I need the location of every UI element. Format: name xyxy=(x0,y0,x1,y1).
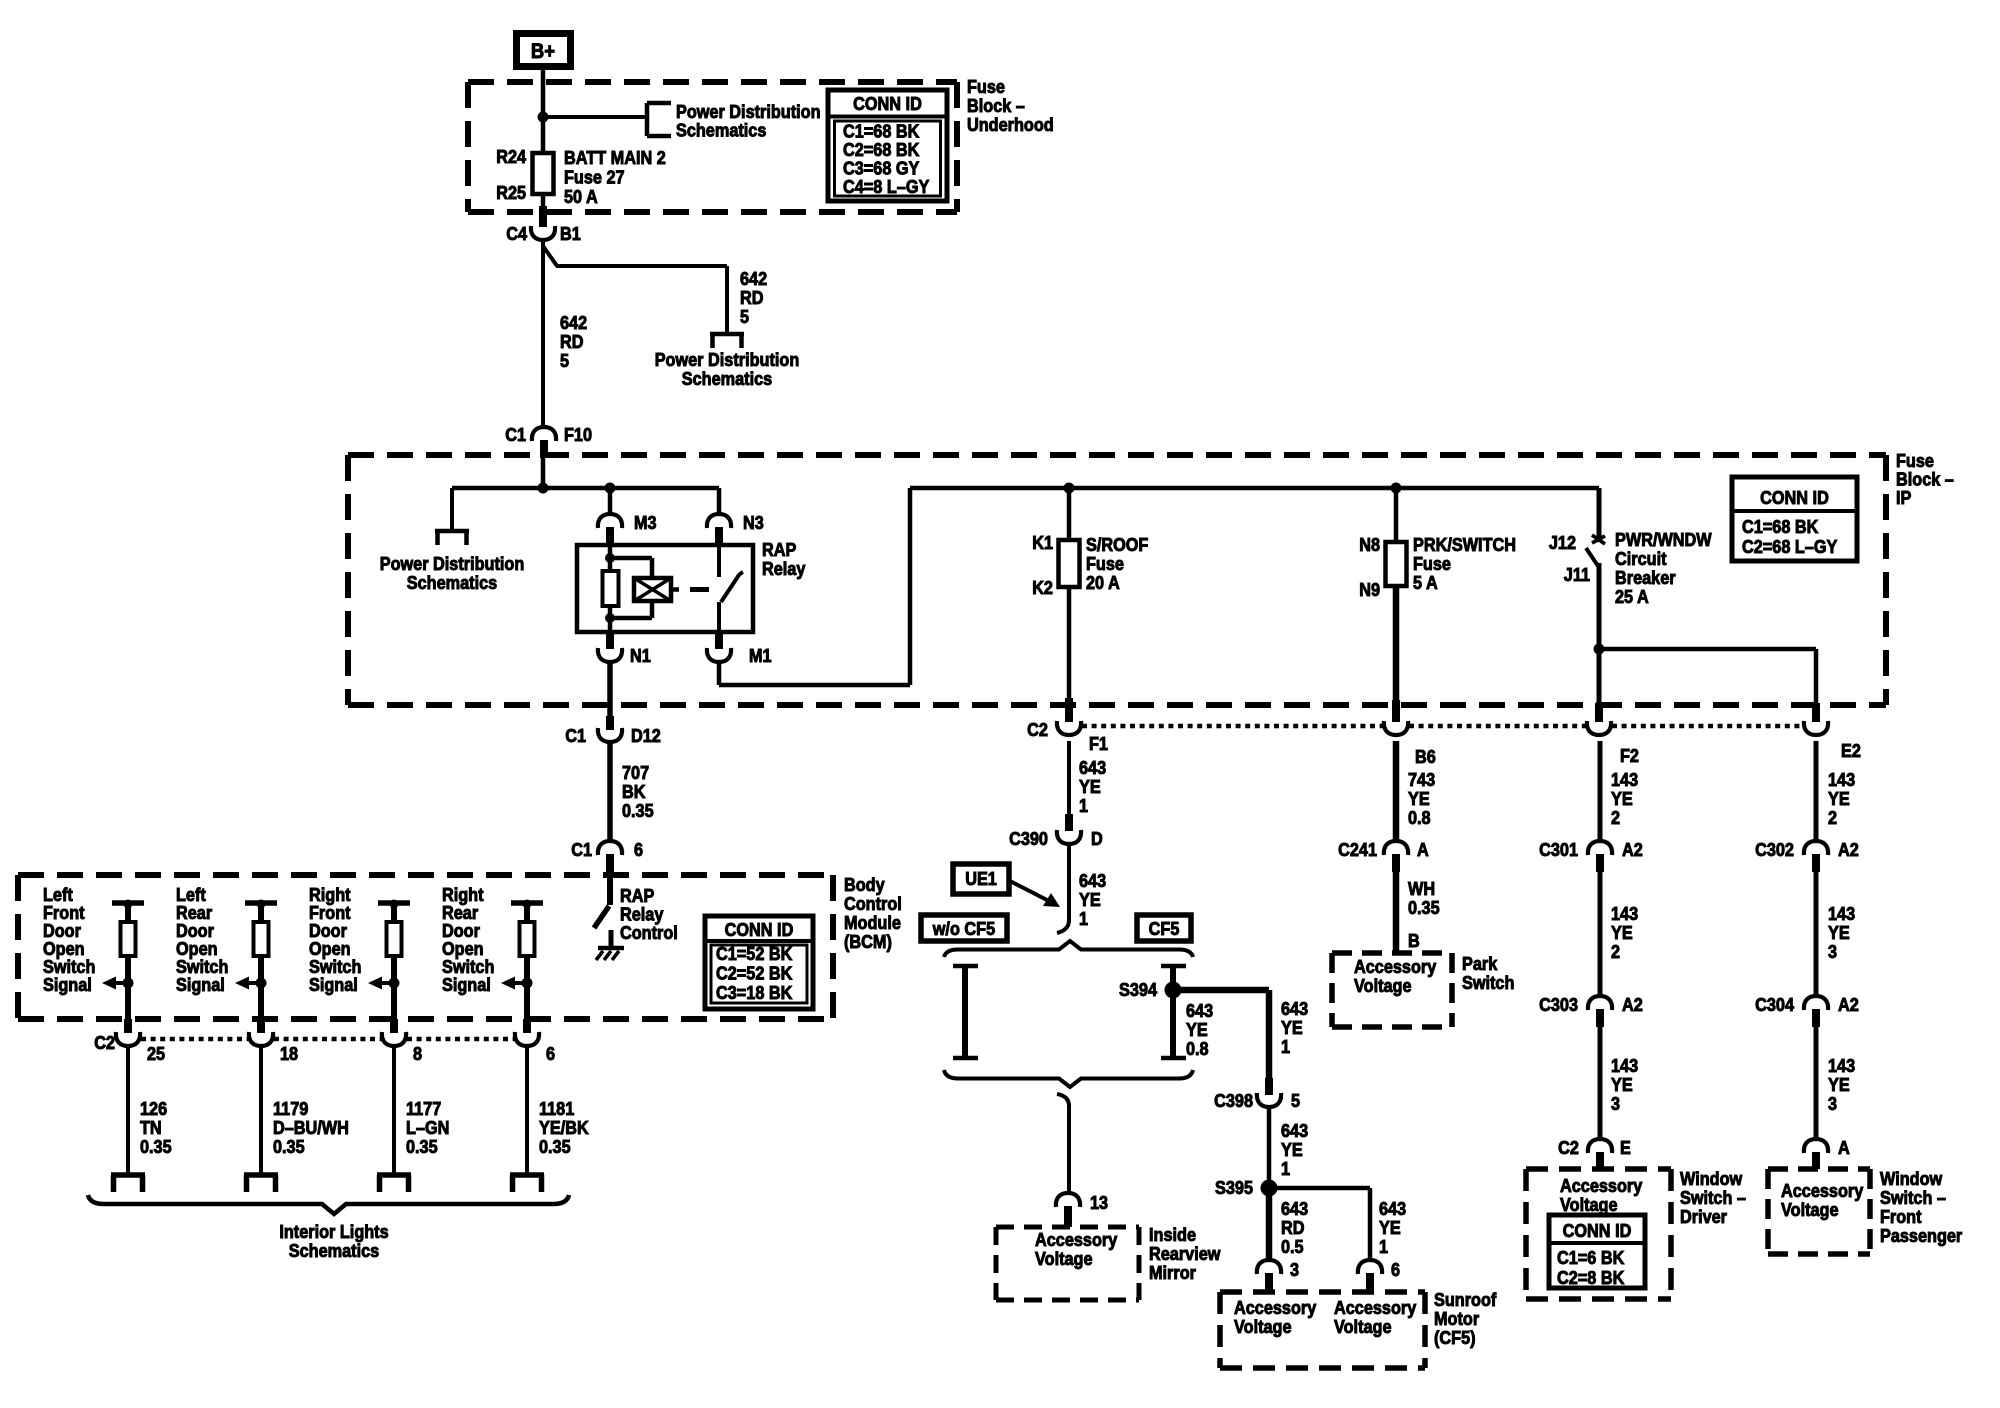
wire M1 return to right bus xyxy=(719,488,910,685)
svg-text:Passenger: Passenger xyxy=(1880,1225,1962,1246)
label right rear door open switch signal xyxy=(442,884,494,995)
svg-text:M1: M1 xyxy=(749,645,772,666)
svg-text:13: 13 xyxy=(1090,1192,1108,1213)
resistor left rear door switch xyxy=(254,922,269,956)
connector C2 pin 6 xyxy=(515,1019,555,1064)
label Inside Rearview Mirror xyxy=(1149,1224,1221,1283)
switch right front door open signal branch xyxy=(378,900,410,923)
wire 1177 L&#8211;GN xyxy=(394,1046,449,1175)
svg-text:A: A xyxy=(1417,839,1429,860)
connector C2 pin 25 xyxy=(116,1019,165,1064)
svg-text:C390: C390 xyxy=(1009,828,1048,849)
node left rear signal junction xyxy=(235,977,267,990)
wire 643 YE 1 from C2F1 to C390 xyxy=(1069,741,1106,831)
wire left front door switch to connector xyxy=(125,956,131,1021)
wire branch 642 RD to power distribution xyxy=(543,246,727,334)
label Power Distribution Schematics 3 xyxy=(380,553,525,593)
node bus dot at PRK/SWITCH fuse xyxy=(1391,483,1402,494)
svg-text:CONN ID: CONN ID xyxy=(725,919,794,940)
svg-text:25: 25 xyxy=(147,1043,165,1064)
CONN ID table BCM xyxy=(705,916,813,1009)
svg-text:UE1: UE1 xyxy=(965,868,997,889)
wire bus corner to circuit breaker J12 xyxy=(1597,488,1602,542)
svg-text:A2: A2 xyxy=(1622,994,1643,1015)
circuit breaker PWR/WNDW 25A J12 J11 xyxy=(1549,529,1712,649)
svg-text:3: 3 xyxy=(1611,1093,1620,1114)
node splice S395 xyxy=(1215,1177,1277,1198)
svg-text:Signal: Signal xyxy=(442,974,491,995)
node CF5 option box xyxy=(1137,915,1191,941)
node w/o CF5 option box xyxy=(921,915,1007,941)
dotted harness line below IP xyxy=(1082,724,1803,729)
off-page bracket power distribution 2 xyxy=(710,334,744,348)
svg-text:0.35: 0.35 xyxy=(1408,897,1440,918)
svg-text:Schematics: Schematics xyxy=(289,1240,379,1261)
off-page bracket power distribution 3 xyxy=(435,531,469,545)
svg-text:K2: K2 xyxy=(1032,577,1053,598)
svg-text:Voltage: Voltage xyxy=(1334,1316,1392,1337)
CONN ID table window switch driver xyxy=(1549,1215,1645,1288)
connector N1 xyxy=(598,632,651,666)
svg-text:R25: R25 xyxy=(496,182,526,203)
svg-text:D: D xyxy=(1091,828,1103,849)
svg-text:B1: B1 xyxy=(560,223,581,244)
connector C2 E driver switch xyxy=(1558,1137,1631,1169)
fuse S/ROOF 20A K1 K2 xyxy=(1032,532,1148,598)
CONN ID table fuse block underhood xyxy=(828,90,947,201)
svg-text:w/o CF5: w/o CF5 xyxy=(932,918,996,939)
resistor left front door switch xyxy=(121,922,136,956)
svg-text:1: 1 xyxy=(1079,908,1088,929)
relay RAP box xyxy=(577,539,806,632)
connector C1 D12 xyxy=(565,662,661,746)
wire S394 to C398 xyxy=(1173,990,1308,1095)
brace interior lights group xyxy=(88,1195,569,1214)
svg-text:Signal: Signal xyxy=(176,974,225,995)
svg-text:1: 1 xyxy=(1079,795,1088,816)
connector M3 xyxy=(598,512,657,547)
svg-text:1: 1 xyxy=(1281,1036,1290,1057)
wire 643 YE 1 below C398 xyxy=(1269,1107,1308,1188)
svg-text:A2: A2 xyxy=(1838,994,1859,1015)
label right front door open switch signal xyxy=(309,884,361,995)
wire 143 YE 3 to passenger switch xyxy=(1816,1027,1855,1140)
relay coil winding box xyxy=(634,578,679,601)
svg-text:E: E xyxy=(1620,1137,1631,1158)
off-page bracket power distribution 1 xyxy=(647,103,671,136)
arrow UE1 to wire xyxy=(1010,881,1060,907)
svg-text:B+: B+ xyxy=(531,40,555,63)
svg-text:C1: C1 xyxy=(565,725,586,746)
wire CF5 sunroof path xyxy=(1161,966,1186,1058)
label 642 RD 5 right branch xyxy=(740,268,767,327)
brace option split bottom xyxy=(944,1070,1193,1087)
svg-text:0.35: 0.35 xyxy=(140,1136,172,1157)
fuse block underhood dashed box xyxy=(468,82,957,212)
switch right rear door open signal branch xyxy=(511,900,543,923)
connector C2 pin 18 xyxy=(249,1019,298,1064)
node bus dot at S/ROOF fuse xyxy=(1064,483,1075,494)
wire bus left section in IP xyxy=(452,458,719,488)
wire 143 YE 3 to driver switch xyxy=(1600,1027,1638,1140)
svg-text:Schematics: Schematics xyxy=(682,368,772,389)
switch left front door open signal branch xyxy=(112,900,144,923)
label Park Switch xyxy=(1462,953,1514,993)
wire S395 to sunroof pin 3 xyxy=(1269,1188,1308,1261)
svg-text:C2=8 BK: C2=8 BK xyxy=(1557,1267,1625,1288)
node right rear signal junction xyxy=(501,977,533,990)
svg-text:3: 3 xyxy=(1828,1093,1837,1114)
connector C2 F1 xyxy=(1027,719,1108,754)
svg-text:A: A xyxy=(1838,1137,1850,1158)
svg-text:C1=68 BK: C1=68 BK xyxy=(1742,516,1819,537)
svg-text:K1: K1 xyxy=(1032,532,1053,553)
svg-text:Schematics: Schematics xyxy=(407,572,497,593)
svg-text:3: 3 xyxy=(1828,941,1837,962)
svg-text:Mirror: Mirror xyxy=(1149,1262,1196,1283)
label Body Control Module BCM xyxy=(844,874,902,952)
svg-text:5: 5 xyxy=(740,306,749,327)
node left front signal junction xyxy=(102,977,134,990)
svg-text:C3=18 BK: C3=18 BK xyxy=(716,982,793,1003)
svg-text:C2: C2 xyxy=(1027,719,1048,740)
wire fuse R25 to connector C4 xyxy=(541,194,546,227)
wire 143 YE 2 to C303 xyxy=(1600,872,1638,998)
svg-text:N1: N1 xyxy=(630,645,651,666)
wire to relay pin N3 xyxy=(717,488,722,516)
window switch passenger box xyxy=(1768,1169,1870,1254)
svg-text:M3: M3 xyxy=(634,512,657,533)
connector B6 xyxy=(1384,721,1436,767)
svg-text:2: 2 xyxy=(1828,807,1837,828)
connector C303 A2 xyxy=(1539,994,1643,1027)
label Window Switch Driver xyxy=(1680,1168,1746,1227)
label Power Distribution Schematics 2 xyxy=(655,349,800,389)
svg-text:C304: C304 xyxy=(1755,994,1794,1015)
svg-text:5: 5 xyxy=(560,350,569,371)
svg-text:E2: E2 xyxy=(1841,740,1861,761)
svg-text:5: 5 xyxy=(1291,1090,1300,1111)
connector N3 xyxy=(707,512,764,547)
wire drop to power distribution in IP xyxy=(450,488,454,531)
svg-text:BATT MAIN 2: BATT MAIN 2 xyxy=(564,147,666,168)
connector F2 xyxy=(1587,721,1639,766)
svg-text:C241: C241 xyxy=(1338,839,1377,860)
label left front door open switch signal xyxy=(43,884,95,995)
terminal end right rear interior lights xyxy=(510,1175,544,1192)
connector M1 xyxy=(707,632,772,666)
label 643 YE 0.8 xyxy=(1186,1000,1213,1059)
label Fuse Block Underhood xyxy=(967,76,1054,135)
label Power Distribution Schematics 1 xyxy=(676,101,821,141)
svg-text:C398: C398 xyxy=(1214,1090,1253,1111)
relay coil feed wire xyxy=(608,545,613,558)
svg-text:C1: C1 xyxy=(571,839,592,860)
label Sunroof Motor CF5 xyxy=(1434,1289,1497,1348)
svg-text:6: 6 xyxy=(1391,1259,1400,1280)
svg-text:B: B xyxy=(1408,930,1420,951)
svg-text:C2: C2 xyxy=(94,1032,115,1053)
svg-text:J11: J11 xyxy=(1564,564,1591,585)
svg-text:0.35: 0.35 xyxy=(273,1136,305,1157)
svg-text:Underhood: Underhood xyxy=(967,114,1054,135)
wire w/o CF5 jumper xyxy=(953,966,978,1058)
svg-text:IP: IP xyxy=(1896,487,1912,508)
node junction below circuit breaker xyxy=(1594,644,1605,655)
resistor relay coil shunt xyxy=(603,558,619,618)
svg-text:50 A: 50 A xyxy=(564,186,598,207)
svg-text:C1=52 BK: C1=52 BK xyxy=(716,943,793,964)
connector C1 pin 6 BCM xyxy=(571,839,643,877)
svg-text:Switch: Switch xyxy=(1462,972,1514,993)
svg-text:C4=8 L–GY: C4=8 L–GY xyxy=(843,176,930,197)
svg-text:Signal: Signal xyxy=(43,974,92,995)
wire to inside rearview mirror xyxy=(1067,1104,1071,1194)
svg-text:B6: B6 xyxy=(1415,746,1436,767)
wire 743 YE 0.8 to C241 xyxy=(1396,741,1435,843)
svg-text:J12: J12 xyxy=(1549,532,1576,553)
body control module BCM dashed box xyxy=(18,875,833,1019)
node relay bottom junction xyxy=(605,613,615,623)
svg-text:5 A: 5 A xyxy=(1413,572,1438,593)
wire left rear door switch to connector xyxy=(258,956,264,1021)
svg-text:R24: R24 xyxy=(496,146,526,167)
svg-text:C303: C303 xyxy=(1539,994,1578,1015)
power symbol B+ xyxy=(517,34,571,67)
svg-text:C1=6 BK: C1=6 BK xyxy=(1557,1247,1625,1268)
fuse block IP dashed box xyxy=(348,455,1886,705)
svg-text:Voltage: Voltage xyxy=(1035,1248,1093,1269)
svg-text:F1: F1 xyxy=(1089,733,1108,754)
wire right front door switch to connector xyxy=(391,956,397,1021)
connector C301 A2 xyxy=(1539,839,1643,872)
wire B+ to fuse R24 xyxy=(541,70,546,153)
relay contact switch xyxy=(719,545,743,632)
connector C4 B1 xyxy=(506,223,581,244)
svg-text:N8: N8 xyxy=(1359,534,1380,555)
connector sunroof pin 3 xyxy=(1257,1259,1299,1292)
wire tap to power distribution schematics xyxy=(543,115,647,119)
svg-text:F2: F2 xyxy=(1620,745,1639,766)
svg-text:25 A: 25 A xyxy=(1615,586,1649,607)
svg-text:Voltage: Voltage xyxy=(1560,1194,1618,1215)
wire S/ROOF fuse to C2 F1 xyxy=(1067,587,1072,722)
brace option split top xyxy=(944,941,1193,957)
node bus dot at M3 drop xyxy=(605,483,616,494)
svg-text:CF5: CF5 xyxy=(1149,918,1180,939)
label left rear door open switch signal xyxy=(176,884,228,995)
svg-text:C1: C1 xyxy=(505,424,526,445)
terminal end left front interior lights xyxy=(111,1175,145,1192)
svg-text:CONN ID: CONN ID xyxy=(1563,1220,1632,1241)
svg-text:C2=52 BK: C2=52 BK xyxy=(716,963,793,984)
svg-text:1: 1 xyxy=(1281,1158,1290,1179)
svg-text:CONN ID: CONN ID xyxy=(853,93,922,114)
wire 143 YE 2 to C301 xyxy=(1600,741,1638,843)
svg-text:0.5: 0.5 xyxy=(1281,1236,1304,1257)
svg-text:6: 6 xyxy=(634,839,643,860)
resistor right rear door switch xyxy=(520,922,535,956)
svg-text:Schematics: Schematics xyxy=(676,120,766,141)
terminal end left rear interior lights xyxy=(244,1175,278,1192)
svg-text:0.35: 0.35 xyxy=(406,1136,438,1157)
connector sunroof pin 6 xyxy=(1358,1259,1400,1292)
window switch driver box xyxy=(1526,1169,1671,1299)
svg-text:(CF5): (CF5) xyxy=(1434,1327,1476,1348)
wire WH 0.35 to park switch xyxy=(1396,872,1440,953)
park switch accessory voltage box xyxy=(1332,953,1452,1027)
svg-text:Control: Control xyxy=(620,922,678,943)
svg-text:Voltage: Voltage xyxy=(1354,975,1412,996)
node right front signal junction xyxy=(368,977,400,990)
node bus dot at F10 drop xyxy=(538,483,549,494)
svg-text:CONN ID: CONN ID xyxy=(1760,487,1829,508)
label Fuse Block IP xyxy=(1896,450,1954,508)
ground BCM internal xyxy=(596,948,624,960)
connector C302 A2 xyxy=(1755,839,1859,872)
svg-text:D12: D12 xyxy=(631,725,661,746)
node relay top junction xyxy=(605,553,615,563)
svg-text:N3: N3 xyxy=(743,512,764,533)
resistor right front door switch xyxy=(387,922,402,956)
svg-text:Fuse 27: Fuse 27 xyxy=(564,167,625,188)
wire break option split bottom xyxy=(1057,1094,1069,1106)
wire relay coil branch xyxy=(610,558,652,578)
connector C2 pin 8 xyxy=(382,1019,422,1064)
svg-text:C4: C4 xyxy=(506,223,527,244)
sunroof motor box xyxy=(1220,1292,1425,1368)
svg-text:18: 18 xyxy=(280,1043,298,1064)
node splice S394 xyxy=(1119,979,1181,1000)
wire 143 YE 3 to C304 xyxy=(1816,872,1855,998)
wire S395 branch to sunroof pin 6 xyxy=(1269,1188,1406,1261)
wire branch to E2 xyxy=(1599,649,1816,722)
svg-text:2: 2 xyxy=(1611,807,1620,828)
svg-text:1: 1 xyxy=(1379,1236,1388,1257)
svg-text:0.8: 0.8 xyxy=(1186,1038,1209,1059)
svg-text:0.8: 0.8 xyxy=(1408,807,1431,828)
svg-text:C2: C2 xyxy=(1558,1137,1579,1158)
connector A passenger switch xyxy=(1804,1137,1850,1169)
svg-text:Signal: Signal xyxy=(309,974,358,995)
svg-text:3: 3 xyxy=(1290,1259,1299,1280)
svg-text:0.35: 0.35 xyxy=(539,1136,571,1157)
connector C390 D xyxy=(1009,828,1103,849)
svg-text:8: 8 xyxy=(413,1043,422,1064)
wire to ground xyxy=(609,930,614,947)
svg-text:A2: A2 xyxy=(1622,839,1643,860)
inside rearview mirror box xyxy=(996,1227,1139,1300)
wire to relay pin M3 xyxy=(608,488,613,516)
svg-text:C301: C301 xyxy=(1539,839,1578,860)
fuse R24 R25 BATT MAIN 2 50A xyxy=(496,146,666,207)
node UE1 callout box xyxy=(953,864,1009,894)
svg-text:F10: F10 xyxy=(564,424,592,445)
connector C398 pin 5 xyxy=(1214,1090,1300,1111)
switch RAP relay control xyxy=(594,877,678,943)
svg-text:Voltage: Voltage xyxy=(1234,1316,1292,1337)
fuse PRK/SWITCH 5A N8 N9 xyxy=(1359,534,1516,600)
connector C1 F10 xyxy=(505,424,592,458)
svg-text:N9: N9 xyxy=(1359,579,1380,600)
terminal end right front interior lights xyxy=(377,1175,411,1192)
wire 643 YE 1 below C390 xyxy=(1069,844,1106,929)
switch left rear door open signal branch xyxy=(245,900,277,923)
wire 1179 D&#8211;BU/WH xyxy=(261,1046,349,1175)
wire breaker to F2 xyxy=(1597,649,1602,722)
wire bus to PRK/SWITCH fuse xyxy=(1394,488,1399,542)
relay linkage dash xyxy=(690,587,709,592)
label C2 BCM connector xyxy=(94,1032,115,1053)
svg-text:0.35: 0.35 xyxy=(622,800,654,821)
svg-text:S395: S395 xyxy=(1215,1177,1253,1198)
svg-text:2: 2 xyxy=(1611,941,1620,962)
wire bus right section in IP xyxy=(910,486,1599,491)
svg-text:S394: S394 xyxy=(1119,979,1157,1000)
wire relay to N1 xyxy=(608,618,613,632)
svg-text:C302: C302 xyxy=(1755,839,1794,860)
svg-text:(BCM): (BCM) xyxy=(844,931,892,952)
wire 707 BK to BCM xyxy=(610,742,654,843)
connector C241 A xyxy=(1338,839,1429,872)
wire bus to S/ROOF fuse xyxy=(1067,488,1072,540)
label Interior Lights Schematics xyxy=(279,1221,388,1261)
svg-text:Relay: Relay xyxy=(762,558,806,579)
CONN ID table fuse block IP xyxy=(1732,477,1857,561)
svg-text:20 A: 20 A xyxy=(1086,572,1120,593)
svg-text:C2=68 L–GY: C2=68 L–GY xyxy=(1742,536,1838,557)
wire 642 RD 5 down to C1 F10 xyxy=(543,240,587,428)
svg-text:Voltage: Voltage xyxy=(1781,1199,1839,1220)
wire 126 TN xyxy=(128,1046,172,1175)
wire 1181 YE/BK xyxy=(527,1046,589,1175)
wire relay coil return xyxy=(610,601,652,618)
connector E2 xyxy=(1804,721,1861,761)
dotted connector line BCM C2 xyxy=(141,1037,514,1042)
svg-text:A2: A2 xyxy=(1838,839,1859,860)
connector pin 13 mirror xyxy=(1056,1192,1108,1227)
svg-text:6: 6 xyxy=(546,1043,555,1064)
connector C304 A2 xyxy=(1755,994,1859,1027)
wire break option split top xyxy=(1057,920,1069,933)
node junction to power distribution tap xyxy=(538,112,549,123)
label Window Switch Front Passenger xyxy=(1880,1168,1962,1246)
wire 143 YE 2 to C302 xyxy=(1816,741,1855,843)
wire right rear door switch to connector xyxy=(524,956,530,1021)
svg-text:Driver: Driver xyxy=(1680,1206,1727,1227)
wire PRK/SWITCH fuse to B6 xyxy=(1393,586,1400,722)
